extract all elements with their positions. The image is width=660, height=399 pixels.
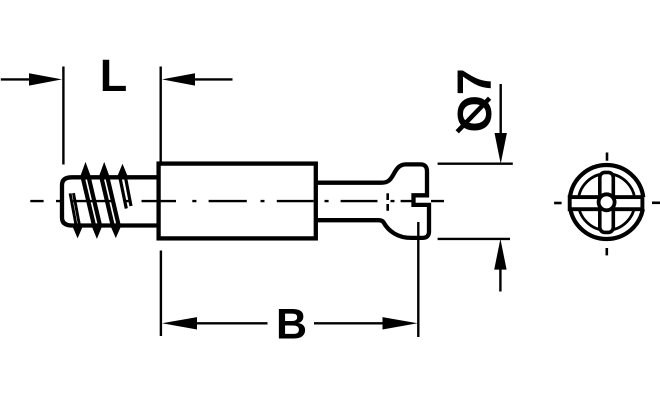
end view: outer circle bottom arc [570,209,643,239]
dia7 dim: top arrow line [500,84,502,136]
end view centerline tick left [554,202,562,205]
B dim: right extension line [417,222,419,337]
svg-text:L: L [100,50,128,101]
L dim: right arrow line [193,78,233,80]
L dim: right extension line [159,67,161,164]
slot depth tick lower [386,204,389,211]
thread 1 flanks [83,177,101,227]
dia7 dim: bottom extension line [438,238,510,240]
svg-text:B: B [276,301,307,349]
thread pair 0 (partial start flank) [70,193,80,228]
B dim: left extension line [160,251,162,337]
dia7 dim: top arrowhead [495,133,507,164]
slot depth tick upper [386,193,389,200]
L dim: left arrow line [1,78,31,80]
dia7 dim: top extension line [438,162,513,164]
shank cylinder [159,164,316,239]
label dia slash [457,98,489,132]
dia7 dim: bottom arrow line [499,266,501,292]
thread 3 flanks (run-out, clipped) [120,177,131,209]
end view centerline tick bottom [605,248,608,255]
thread bottom crest 1 [73,225,83,236]
thread top crest 3 [118,166,127,177]
end view centerline tick top [606,153,609,161]
thread 2 flanks [101,177,119,227]
thread top crest 2 [100,165,109,178]
L dim: right arrowhead [162,73,195,85]
B dim: left arrowhead [162,317,197,329]
L dim: left extension line [62,67,64,165]
neck and head outline [316,164,429,238]
centerline side view [30,200,444,202]
thread top crest 1 [81,165,90,178]
B dim: right arrowhead [383,317,418,329]
end view: slot band [570,197,643,209]
end view: cross vertical slot [600,172,614,232]
end view: outer circle top arc [570,165,643,197]
B dim: line right segment [314,322,384,324]
thread bottom crest 3 [111,225,121,236]
svg-text:O7: O7 [449,68,502,132]
B dim: line left segment [196,322,268,324]
thread core [62,177,159,225]
dia7 dim: bottom arrowhead [494,239,506,270]
end view: inner circle [578,174,635,231]
end view: center circle [599,194,615,210]
L dim: left arrowhead [29,73,62,85]
end view centerline tick right [652,202,660,205]
thread bottom crest 2 [92,225,102,237]
